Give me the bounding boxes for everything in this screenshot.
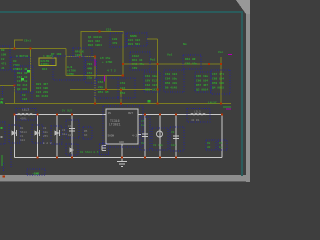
component RP2 box [130,52,150,70]
junction JU17 at (220,102.5) [220,103,222,105]
svg-text:OUT: OUT [128,112,133,115]
svg-text:104: 104 [20,139,25,142]
svg-text:C8+1: C8+1 [24,40,31,43]
component cluster top-mid text [88,36,102,47]
component box right1 [144,72,160,92]
junction JL13 at (159,156.5) [159,157,161,159]
svg-text:Vcc: Vcc [218,51,223,54]
svg-text:104: 104 [171,144,176,147]
svg-text:L3L5: L3L5 [194,111,201,114]
junction JL2 at (56,113.5) [56,114,58,116]
svg-text:R33 5K1: R33 5K1 [128,43,140,46]
svg-text:4 7 2: 4 7 2 [107,70,116,73]
junction JU13 at (220,63) [220,63,222,65]
cap right3 [170,127,184,151]
red marker bottom-left [3,175,6,177]
junction JL10 at (71,156.5) [71,157,73,159]
svg-text:C1E2: C1E2 [132,55,139,58]
svg-text:C42 47u: C42 47u [132,63,144,66]
svg-text:0R: 0R [207,146,211,149]
component text mid [100,57,113,64]
svg-text:10u: 10u [43,131,48,134]
op IC U1 body [106,109,141,144]
svg-text:Vo1: Vo1 [167,54,172,57]
junction JU14 at (94,102.5) [94,103,96,105]
svg-text:A NETLB: A NETLB [16,55,28,58]
junction JL8 at (36.5,156.5) [37,157,39,159]
junction JU18 at (13.5,84.5) [14,85,16,87]
wire right rail x222 [221,115,223,158]
component C9 box [21,92,32,101]
cap on x72 [66,120,79,138]
net green mark far left on olive bus [1,101,3,103]
svg-text:C30: C30 [112,38,117,41]
junction JL9 at (56,156.5) [56,157,58,159]
svg-text:24RCL: 24RCL [41,63,50,66]
junction JU9 at (156.5,63) [157,63,159,65]
wire vertical x221 [220,57,222,104]
junction JL12 at (144,156.5) [144,157,146,159]
junction JL3 at (71,113.5) [71,114,73,116]
svg-text:C9: C9 [22,94,26,97]
window light edge bottom [0,175,250,182]
svg-text:-GND: -GND [32,173,39,176]
wire branch x57 [56,115,58,158]
svg-text:104: 104 [22,98,27,101]
component RP1 box [73,48,92,57]
svg-text:L4L5C: L4L5C [208,102,217,105]
svg-text:R52: R52 [120,92,125,95]
svg-text:16V: 16V [132,67,137,70]
svg-text:R23 4K7: R23 4K7 [36,83,48,86]
svg-text:U3: U3 [13,60,17,63]
svg-text:R9: R9 [1,49,5,52]
wire long horizontal y48 [0,48,66,50]
junction JL14 at (175,156.5) [175,157,177,159]
svg-text:C53: C53 [120,82,125,85]
svg-text:R31 1K2: R31 1K2 [88,40,100,43]
junction JU7 at (120,88.5) [120,89,122,91]
svg-text:10u: 10u [68,134,73,137]
junction JU2 at (98.5,30.5) [99,31,101,33]
component box top-mid [110,33,126,47]
svg-text:R24 10K: R24 10K [36,87,48,90]
svg-text:C31 104: C31 104 [128,39,140,42]
svg-text:6V: 6V [141,142,145,145]
wire vertical x121 [120,90,122,104]
bottom-left selection tick green [2,155,3,166]
svg-text:R61 0R: R61 0R [185,58,196,61]
component text rows below U2 [36,83,48,98]
highlighted part yellow box [39,58,56,66]
svg-text:D2 SS24 0.5: D2 SS24 0.5 [80,151,99,154]
svg-text:C60 10u: C60 10u [185,63,197,66]
svg-text:R5: R5 [84,130,88,133]
svg-text:D1: D1 [20,127,24,130]
IC U1 selection box [103,106,143,147]
diode D on x14 [9,125,27,143]
resistor R5 box [83,127,92,139]
component box right3 [195,72,211,92]
svg-text:Po1: Po1 [150,59,155,62]
svg-text:C2: C2 [1,58,5,61]
svg-text:103J: 103J [75,54,82,57]
junction JU6 at (105,88.5) [105,89,107,91]
svg-text:74HC: 74HC [13,64,20,67]
wire horizontal y39 [147,38,158,40]
inductor L1 [16,109,36,121]
wire top rail right of IC [138,114,222,116]
svg-text:43R1: 43R1 [20,118,27,121]
svg-text:471: 471 [1,63,6,66]
sheet border teal top [0,11,243,13]
svg-text:R12 4K: R12 4K [17,68,28,71]
svg-text:LM 35x: LM 35x [100,57,111,60]
bottom-left dashed edge [10,147,12,168]
svg-text:4MH: 4MH [87,68,92,71]
wire branch x178 [175,115,177,158]
svg-text:C21: C21 [106,29,111,32]
svg-text:43 R1: 43 R1 [191,119,200,122]
component bottom-right text2 [218,140,227,150]
junction JU11 at (122,74.5) [122,75,124,77]
junction JL6 at (175,113.5) [175,114,177,116]
svg-text:R58 10K: R58 10K [212,82,224,85]
svg-text:Q3 9014: Q3 9014 [196,89,208,92]
ground symbol [117,158,127,167]
junction JL4 at (144,113.5) [144,114,146,116]
svg-text:R57 4K7: R57 4K7 [196,84,208,87]
cap bank C right of IC [140,117,150,150]
junction JL1 at (36.5,113.5) [37,114,39,116]
junction JU1 at (29.5,47.5) [30,48,32,50]
junction JU16 at (156.5,102.5) [157,103,159,105]
svg-text:R8: R8 [207,142,211,145]
wire horizontal y89 [70,89,152,91]
wire top rail y114 [15,114,107,116]
wire vertical x66 [65,49,67,76]
svg-text:22p: 22p [87,77,92,80]
svg-text:16V EL2: 16V EL2 [145,80,157,83]
svg-text:C7: C7 [141,120,145,123]
svg-text:C3: C3 [62,129,66,132]
svg-text:C1: C1 [20,135,24,138]
component edge-left partial box [0,46,10,70]
junction JU5 at (121.5,74.5) [122,75,124,77]
junction JU8 at (156.5,88.5) [157,89,159,91]
svg-text:C24 220: C24 220 [36,91,48,94]
svg-text:470: 470 [112,42,117,45]
wire horizontal y64 [123,63,221,65]
component NA box top-mid2 [127,33,147,46]
cap on x57 [51,126,67,144]
junction JL5 at (159,113.5) [159,114,161,116]
svg-text:J2: J2 [0,98,4,101]
svg-text:C64 10u: C64 10u [165,78,177,81]
wire IC ground stub [121,144,123,158]
svg-text:D3 414: D3 414 [17,84,28,87]
junction dots upper [14,31,223,105]
wire vertical x30 [30,49,32,93]
component box mid2 [118,78,135,98]
svg-text:17MC: 17MC [67,73,74,76]
svg-text:R41 1K: R41 1K [132,59,143,62]
svg-text:IN: IN [108,112,112,115]
wire left rail x14 [14,115,16,158]
power marker magenta x95 [95,59,96,66]
wire horizontal y75 [66,75,123,77]
svg-text:C8 10u: C8 10u [153,144,163,147]
diode D on x37 [32,125,48,143]
svg-text:C61 10u: C61 10u [145,75,157,78]
svg-text:LT3021: LT3021 [109,123,121,127]
wire bottom rail y157 [15,157,223,159]
svg-text:R7 1K0: R7 1K0 [51,53,62,56]
junction JU10 at (122,63) [122,63,124,65]
svg-text:10K: 10K [1,54,6,57]
net tick green on bottom olive wire [148,100,151,103]
connector J1 small [100,144,109,155]
wire long bottom horizontal y103 [5,103,231,105]
junction JL7 at (221,113.5) [221,114,223,116]
svg-text:L1L3: L1L3 [22,109,29,112]
wire branch x142 [144,115,146,158]
junction JL0 at (13.5,113.5) [14,114,16,116]
connector left edge box [0,122,5,144]
bottom small component box [27,169,45,176]
svg-text:Q2 901: Q2 901 [17,88,28,91]
svg-text:-5V OUT: -5V OUT [60,110,72,113]
svg-text:J1: J1 [1,67,5,70]
svg-text:Q1 9013S: Q1 9013S [88,36,102,39]
wire net stub to label top-left [15,40,24,49]
svg-text:C9: C9 [171,131,175,134]
wire branch x161 [159,115,161,158]
svg-text:NAME: NAME [130,35,137,38]
left edge lower dashes [0,86,4,105]
component box right4 [211,70,230,94]
power marker magenta x104 [104,76,105,82]
power flag right top [223,107,231,110]
wire branch x72 [71,115,73,158]
svg-text:Q4 9015: Q4 9015 [212,87,224,90]
component Y1 narrow box [86,60,97,83]
component value list box [15,66,33,92]
svg-text:RC4: RC4 [42,68,47,71]
sheet border teal right [241,11,243,176]
component U3 box [11,55,30,71]
wire branch x37 [37,115,39,158]
svg-text:104: 104 [120,87,125,90]
junction JU3 at (79,55.5) [79,56,81,58]
inductor L4 [187,109,210,123]
svg-text:C63 104: C63 104 [165,73,177,76]
component C box mid [95,78,118,98]
wire vertical x95 [94,57,96,104]
svg-text:C4: C4 [68,125,72,128]
component bottom-right text1 [206,140,216,150]
svg-text:+ 17NC: + 17NC [102,61,113,64]
wire horizontal y31 [81,32,123,76]
junction JU15 at (120,102.5) [120,103,122,105]
svg-text:C51: C51 [87,72,92,75]
svg-text:1u: 1u [219,146,223,149]
svg-text:R51 1M: R51 1M [98,91,109,94]
svg-text:C68 104: C68 104 [212,78,224,81]
svg-text:C52: C52 [98,81,103,84]
window corner wedge top-right [236,0,250,14]
svg-text:GND: GND [119,141,124,144]
svg-text:D4 4148: D4 4148 [36,95,48,98]
junction JU4 at (94,55.5) [94,56,96,58]
svg-text:SHDN: SHDN [108,135,115,138]
svg-text:C66 104: C66 104 [196,80,208,83]
junction dots lower [14,114,224,159]
svg-text:R32 10K4: R32 10K4 [88,44,102,47]
svg-text:C62 104: C62 104 [145,84,157,87]
svg-text:25V: 25V [43,135,48,138]
diode D2 bottom [66,144,99,155]
wire vertical x157 [157,39,159,104]
svg-text:C5: C5 [219,142,223,145]
svg-text:D6 4148: D6 4148 [165,87,177,90]
svg-text:C67 471: C67 471 [212,73,224,76]
junction JU0 at (13.5,47.5) [14,48,16,50]
wire horizontal y56 [66,56,95,58]
component box right2 [164,70,184,92]
component box T [183,55,201,69]
window light edge right [246,0,250,182]
svg-text:Nm: Nm [183,43,187,46]
transistor Q right of IC [152,128,168,150]
svg-text:C2: C2 [43,127,47,130]
power marker magenta right [228,54,232,55]
svg-text:E A U: E A U [43,142,52,145]
svg-text:R55 1K2: R55 1K2 [145,89,157,92]
svg-text:4-2: 4-2 [132,135,137,138]
junction JU12 at (208,63) [208,63,210,65]
svg-text:104: 104 [62,133,67,136]
wire vertical x106 [105,76,107,90]
svg-text:Y01: Y01 [87,63,92,66]
svg-text:R13 1K: R13 1K [17,72,28,75]
wire left stub y85 [0,86,15,104]
svg-text:22p: 22p [98,86,103,89]
component U5 big dashed box [53,56,84,80]
junction JL11 at (121,156.5) [121,157,123,159]
background workspace [0,0,250,182]
svg-text:1K: 1K [84,134,88,137]
svg-text:R56 330: R56 330 [165,82,177,85]
svg-text:SS14: SS14 [20,131,27,134]
svg-text:1u: 1u [141,124,145,127]
svg-text:C65 10u: C65 10u [196,75,208,78]
